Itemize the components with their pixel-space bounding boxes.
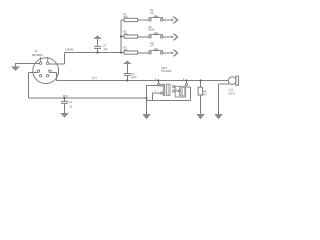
wire riser top link — [186, 86, 191, 88]
wire Q1 lower drop — [152, 93, 154, 100]
resistor R4 — [198, 87, 202, 95]
svg-text:J1: J1 — [34, 49, 38, 53]
svg-text:.1uF: .1uF — [103, 47, 109, 51]
switch S2 — [149, 33, 163, 38]
wire S2 to port2 — [163, 36, 172, 38]
wire C2 stem upper — [126, 64, 128, 73]
wire row1 from bus to R1 — [121, 19, 124, 21]
wire R4 stem bottom — [200, 95, 202, 114]
wire C2 stem lower — [126, 75, 128, 80]
wire ground to connector pin A — [15, 63, 40, 65]
connector J1 circle — [33, 58, 59, 84]
resistor R2 — [124, 35, 138, 38]
svg-text:C1: C1 — [69, 100, 73, 104]
wire PTT pin out of connector — [51, 72, 57, 74]
svg-text:C3: C3 — [103, 44, 107, 48]
svg-text:10K: 10K — [123, 32, 128, 36]
wire S3 to port3 — [163, 52, 172, 54]
capacitor C1 plates — [61, 101, 68, 103]
wire Q2 inner lead — [175, 90, 178, 92]
switch S3 — [149, 49, 163, 54]
wire speaker bottom lead — [219, 83, 230, 85]
ground arrow below R4 — [196, 114, 205, 119]
wire Q1 upper lead — [147, 84, 161, 86]
transistor Q2 body — [175, 86, 185, 97]
wire ground stem left — [15, 64, 17, 67]
resistor R1 — [124, 18, 138, 21]
svg-text:MIC: MIC — [63, 94, 68, 98]
svg-text:MK1: MK1 — [161, 66, 167, 70]
wire PTT main horizontal — [57, 80, 229, 82]
svg-text:SD-8: SD-8 — [228, 91, 234, 95]
switch S1 — [149, 16, 163, 21]
wire C1 stem upper — [64, 98, 66, 101]
transistor Q2 pins — [173, 83, 188, 92]
wire bus vertical — [120, 20, 122, 53]
port arrow row3 — [172, 49, 178, 56]
transistor Q1 pins — [157, 83, 162, 94]
wire R1 to S1 — [138, 19, 149, 21]
wire C1 stem lower — [64, 103, 66, 113]
svg-text:PTT: PTT — [92, 77, 98, 81]
wire Q1 lower lead — [153, 92, 161, 94]
svg-text:LS1: LS1 — [228, 88, 233, 92]
wire S1 to port1 — [163, 19, 172, 21]
capacitor C3 plates — [94, 46, 101, 48]
wire bottom loop — [147, 99, 191, 101]
svg-text:SQ: SQ — [150, 11, 154, 15]
connector pins — [37, 62, 51, 77]
port arrow row2 — [172, 33, 178, 40]
svg-text:R4: R4 — [203, 89, 207, 93]
ground arrow below C1 — [60, 113, 69, 118]
svg-text:MIC-8DIN: MIC-8DIN — [32, 53, 43, 57]
wire Q1 left drop to mic and ground — [146, 85, 148, 114]
wire CMEM net horizontal — [64, 52, 124, 54]
speaker LS1 — [228, 76, 238, 85]
wire R4 stem top — [200, 81, 202, 88]
ground arrow below transistor left — [142, 114, 151, 119]
port arrow row1 — [172, 16, 178, 23]
wire R3 to S3 — [138, 52, 149, 54]
ground arrow below speaker — [214, 114, 223, 119]
svg-text:UP: UP — [150, 44, 154, 48]
connector pin stubs — [41, 57, 48, 62]
ground arrow up at C3 — [93, 35, 102, 39]
transistor Q1 body — [163, 84, 170, 95]
ground arrow up at C2 — [123, 61, 132, 64]
wire PTT step down — [56, 73, 58, 81]
resistor R3 — [124, 51, 138, 54]
svg-text:C2: C2 — [131, 72, 135, 76]
svg-text:DWN: DWN — [148, 28, 154, 32]
svg-text:CMEM: CMEM — [65, 48, 74, 52]
wire speaker ground drop — [218, 84, 220, 114]
svg-text:10K: 10K — [123, 48, 128, 52]
svg-text:3: 3 — [155, 91, 157, 93]
wire connector pin B to riser — [49, 63, 64, 65]
capacitor C2 plates — [124, 74, 131, 76]
svg-text:.01: .01 — [69, 105, 73, 109]
wire row2 from bus to R2 — [121, 36, 124, 38]
wire transistor stub pin4 — [158, 81, 160, 84]
wire MIC drop left — [27, 72, 29, 98]
wire bottom loop right riser — [190, 87, 192, 100]
junction dots — [63, 35, 201, 99]
wire MIC pin out of connector — [28, 71, 37, 73]
svg-text:10K: 10K — [123, 15, 128, 19]
svg-text:PN-2222: PN-2222 — [161, 69, 172, 73]
wire MIC main horizontal — [28, 97, 146, 99]
ground arrow left of connector — [11, 66, 20, 71]
svg-text:4K7: 4K7 — [202, 92, 207, 96]
wire R2 to S2 — [138, 36, 149, 38]
wire riser to CMEM — [63, 53, 65, 65]
wire transistor stub pin2 — [186, 81, 188, 84]
wire C3 stem upper — [97, 39, 99, 46]
svg-text:10uF: 10uF — [131, 75, 137, 79]
wire C3 stem lower — [97, 48, 99, 52]
